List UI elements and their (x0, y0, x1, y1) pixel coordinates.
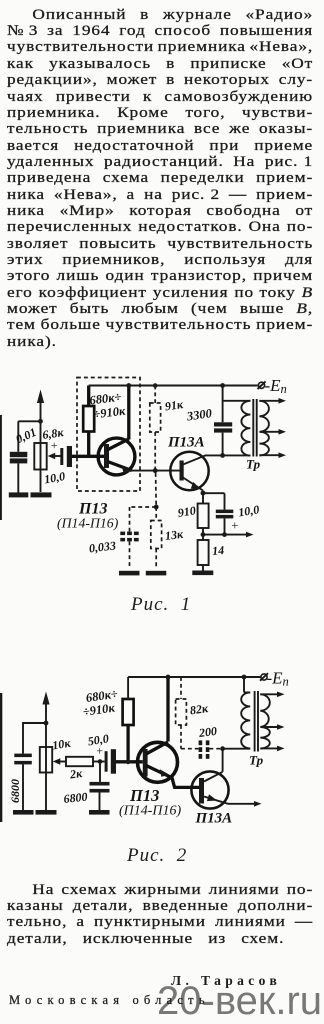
page-edge artifact (left black sliver, upper) (0, 415, 2, 520)
wire (emitter line to base П13А) (131, 470, 180, 472)
transformer Тр (Рис.2) (223, 677, 270, 768)
svg-text:+: + (231, 519, 239, 533)
node (6800-II tap) (98, 759, 103, 764)
label П13 (П14-П16) Рис.2 (119, 786, 182, 819)
secondary arrow (top) (259, 398, 286, 404)
caption Рис. 2 (127, 846, 187, 865)
ground (under 6800) (13, 810, 34, 815)
svg-text:91к: 91к (164, 397, 185, 414)
svg-text:П13А: П13А (195, 811, 233, 827)
node (rail/primary Рис.2) (242, 675, 247, 680)
node (collector/rail Рис.2) (166, 675, 171, 680)
resistor 13к (dashed, removed) (151, 507, 185, 569)
node (pot top junction) (44, 721, 49, 726)
resistor 82к (dashed, removed) (176, 677, 210, 749)
watermark 20-век.ru (157, 979, 322, 1024)
svg-text:10к: 10к (51, 736, 72, 753)
input arrow (antenna lead) (37, 390, 44, 493)
secondary arrow top (Рис.2) (260, 692, 284, 698)
ground (under 13к) (146, 571, 167, 576)
top paragraph (7, 7, 313, 350)
wire (collector П13А up) (222, 749, 224, 772)
input arrow (Рис.2) (42, 692, 49, 811)
capacitor 50,0 (87, 731, 116, 773)
svg-text:6800: 6800 (63, 790, 88, 806)
power terminal -Еп (Рис.2) (260, 669, 289, 689)
wire (collector П13 to rail) (127, 386, 130, 440)
wire (bold, 10,0 to base П13) (72, 455, 105, 458)
wire (emitter П13 to base П13А, bold) (173, 786, 199, 789)
ground (under 10к) (36, 810, 57, 815)
resistor 680к÷910к (83, 386, 127, 457)
ground (under 14) (192, 571, 213, 576)
wire (0,01 to input node) (18, 420, 40, 422)
node (collector/rail) (126, 383, 131, 388)
node (divider junction) (154, 505, 159, 510)
source line (9, 993, 210, 1008)
ground (under 6800-II) (89, 810, 110, 815)
resistor 14 (198, 535, 225, 571)
svg-text:2к: 2к (68, 766, 84, 782)
svg-text:Тр: Тр (249, 753, 264, 768)
transistor П13 (Рис.2) (138, 742, 178, 787)
node (base П13А junction) (153, 468, 158, 473)
secondary arrow (middle tap) (260, 429, 286, 435)
transistor П13А (Рис.2) (191, 771, 228, 808)
resistor 910 (177, 503, 209, 534)
svg-text:10,0: 10,0 (237, 502, 260, 519)
wire (top rail Рис.1) (89, 385, 258, 387)
wire (dashed, junction down to removed divider) (155, 473, 158, 507)
capacitor 6800 (input) (8, 723, 46, 811)
svg-text:(П14-П16): (П14-П16) (119, 804, 182, 819)
bottom paragraph (7, 882, 313, 947)
secondary arrow (bottom) (259, 452, 286, 458)
capacitor 10,0 (input electrolytic) (43, 446, 72, 486)
ground (under 0,01) (9, 492, 29, 497)
svg-text:Тр: Тр (246, 457, 261, 472)
svg-text:82к: 82к (189, 701, 210, 718)
capacitor 0,033 (dashed, removed) (88, 532, 139, 569)
wire (collector П13А to transformer) (205, 454, 251, 456)
svg-text:10,0: 10,0 (43, 469, 66, 486)
resistor 680к÷910к (Рис.2) (82, 677, 134, 762)
wire (top rail Рис.2) (128, 676, 261, 678)
capacitor 10,0 (emitter bypass) (216, 502, 260, 534)
node (rail/3300) (220, 383, 225, 388)
svg-text:+: + (50, 438, 58, 452)
wire (dashed, to 0,033) (130, 507, 157, 532)
transistor П13 (98, 438, 135, 475)
power terminal -Еп (258, 376, 287, 396)
node (input junction) (38, 419, 43, 424)
svg-text:910: 910 (177, 503, 197, 520)
label П13 (П14-П16) (57, 501, 119, 532)
ground (under potentiometer) (31, 492, 52, 497)
svg-text:0,033: 0,033 (88, 538, 117, 555)
wire (emitter П13А out) + output arrow (228, 801, 262, 807)
node (base bias junction) (126, 759, 131, 764)
node (3300/collector) (220, 453, 225, 458)
secondary arrow middle (Рис.2) (261, 724, 284, 730)
resistor 2к (66, 757, 105, 782)
byline Л. Тарасов (171, 973, 281, 989)
svg-text:+: + (96, 744, 104, 758)
potentiometer 6,8к (34, 425, 65, 469)
svg-text:6800: 6800 (8, 779, 22, 803)
secondary arrow bottom (Рис.2) (260, 746, 284, 752)
capacitor 6800 (second) (63, 762, 110, 811)
node (10,0 bottom) (222, 532, 227, 537)
transistor П13А (167, 435, 209, 491)
svg-text:÷910к: ÷910к (93, 404, 127, 422)
caption Рис. 1 (131, 595, 191, 614)
wire (collector П13 to rail, bold) (166, 677, 169, 742)
node (910/14) (201, 532, 206, 537)
capacitor 0,01 (10, 421, 39, 492)
svg-text:-Еп: -Еп (265, 376, 287, 396)
transformer Тр (223, 399, 269, 472)
resistor 91к (dashed, removed) (150, 386, 185, 470)
svg-text:П13: П13 (129, 786, 159, 805)
svg-text:14: 14 (212, 543, 225, 558)
dashed box (П13 stage) (77, 378, 140, 492)
page-edge artifact (left black sliver, lower) (0, 693, 2, 822)
wire (emitter bottom line) + output arrow (203, 532, 254, 538)
node (rail/91к) (153, 383, 158, 388)
wire (bold, 50,0 to base П13) (116, 760, 143, 763)
svg-text:200: 200 (197, 724, 218, 740)
wire (emitter node branches) (203, 491, 225, 510)
svg-text:-Еп: -Еп (267, 669, 289, 689)
svg-text:3300: 3300 (185, 406, 213, 424)
svg-text:П13А: П13А (167, 435, 205, 451)
capacitor 3300 (185, 386, 232, 456)
node (collector П13А / transformer) (220, 746, 225, 751)
svg-text:(П14-П16): (П14-П16) (57, 516, 119, 532)
svg-text:13к: 13к (164, 527, 185, 543)
capacitor 200 (dashed, removed) (181, 724, 223, 759)
ground (under 0,033) (119, 571, 140, 576)
potentiometer 10к (40, 736, 72, 773)
node (emitter П13А) (201, 491, 206, 496)
